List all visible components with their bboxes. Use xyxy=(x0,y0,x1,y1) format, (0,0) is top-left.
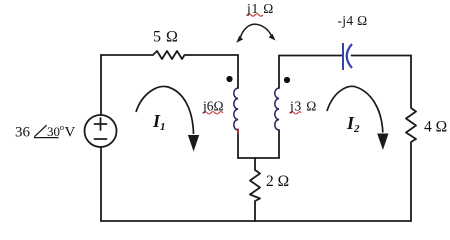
svg-text:30: 30 xyxy=(47,124,60,139)
svg-text:j3 Ω: j3 Ω xyxy=(289,99,317,114)
svg-text:-j4 Ω: -j4 Ω xyxy=(338,13,368,28)
svg-text:j6Ω: j6Ω xyxy=(202,99,224,114)
svg-text:V: V xyxy=(65,125,76,141)
svg-text:j1 Ω: j1 Ω xyxy=(246,1,274,16)
svg-text:36: 36 xyxy=(15,125,31,141)
svg-text:2 Ω: 2 Ω xyxy=(266,173,289,190)
svg-text:5 Ω: 5 Ω xyxy=(153,29,178,46)
svg-text:o: o xyxy=(60,122,64,132)
svg-text:4 Ω: 4 Ω xyxy=(424,119,447,136)
